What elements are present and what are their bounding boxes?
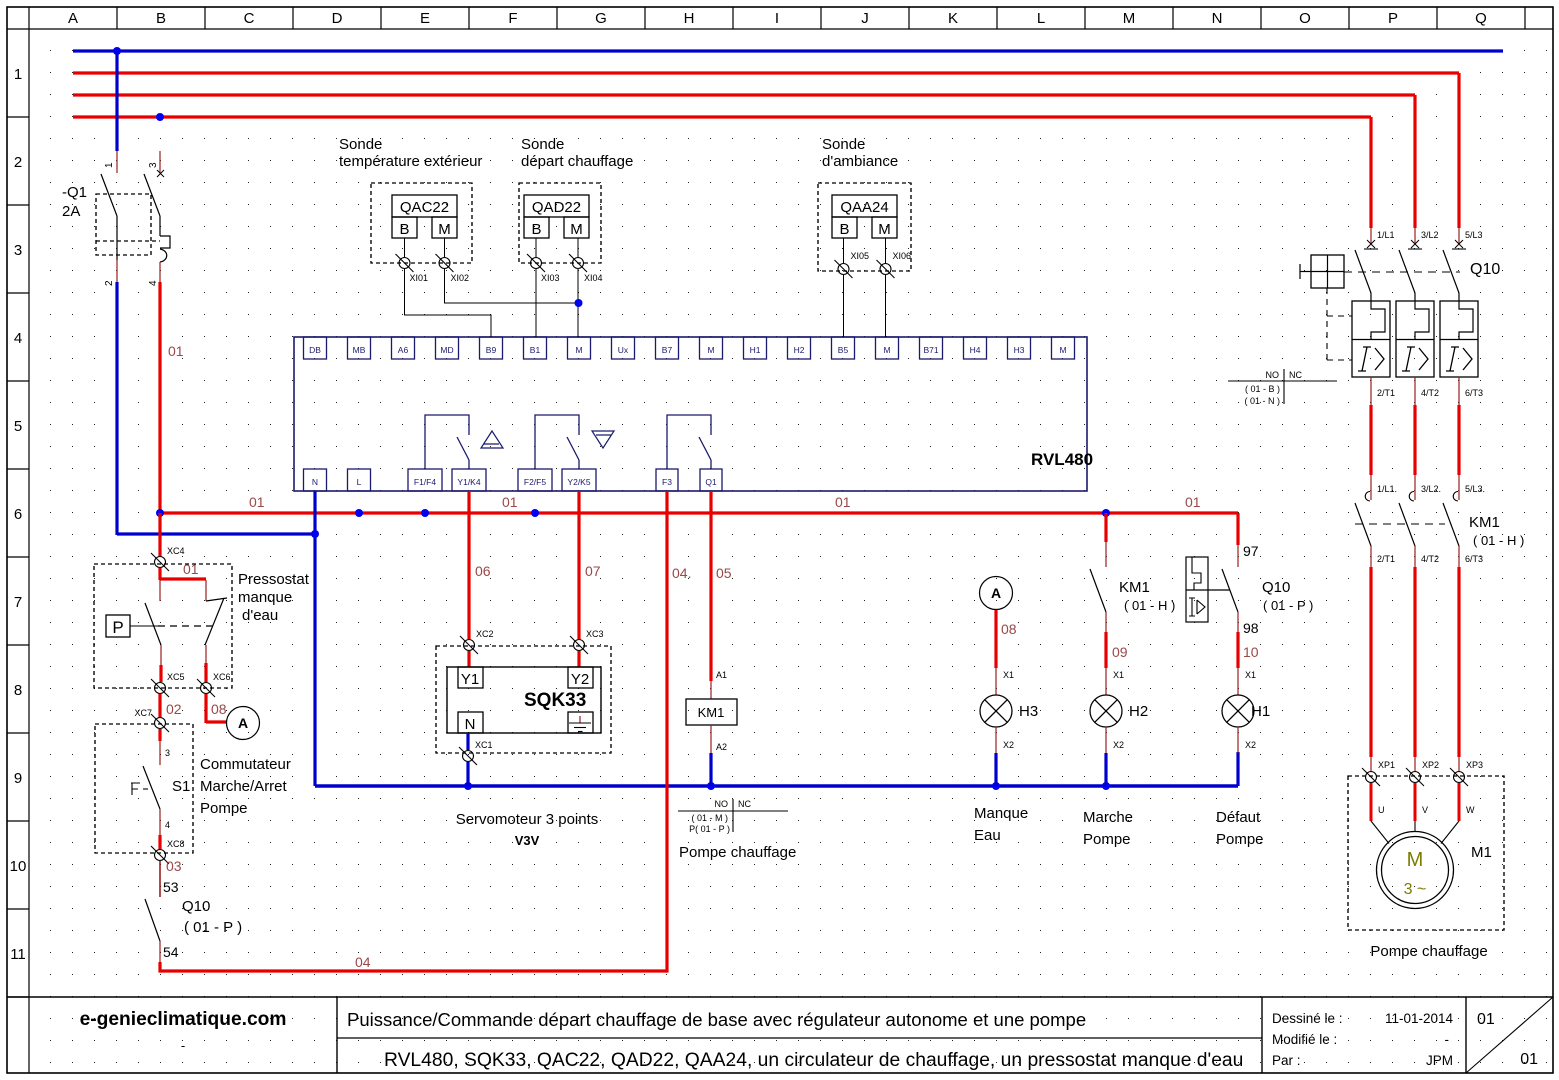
svg-text:Pompe: Pompe [1216, 831, 1264, 848]
wire H1 to blue bus [1238, 727, 1256, 753]
wire XI03 to B1 [535, 269, 537, 337]
svg-text:RVL480, SQK33, QAC22, QAD22, Q: RVL480, SQK33, QAC22, QAD22, QAA24, un c… [384, 1050, 1243, 1071]
svg-text:3 ~: 3 ~ [1404, 881, 1427, 898]
servomotor M2 SQK33 [436, 646, 611, 848]
svg-text:NC: NC [738, 799, 751, 809]
wire L3 bus [73, 117, 1371, 228]
svg-text:QAC22: QAC22 [400, 199, 449, 216]
contactor KM1 power contacts [1355, 475, 1524, 567]
svg-text:U: U [1378, 805, 1385, 815]
connector XC7 [155, 718, 166, 729]
wire N bus (blue phase/neutral top) [73, 49, 1503, 52]
svg-text:4: 4 [148, 280, 159, 286]
svg-text:Sonde: Sonde [521, 136, 564, 153]
svg-text:Y2/K5: Y2/K5 [567, 477, 590, 487]
svg-text:Marche/Arret: Marche/Arret [200, 778, 288, 795]
svg-text:H2: H2 [1129, 703, 1148, 720]
svg-text:H2: H2 [794, 345, 805, 355]
svg-text:97: 97 [1243, 543, 1259, 559]
svg-text:Puissance/Commande départ chau: Puissance/Commande départ chauffage de b… [347, 1009, 1086, 1030]
wire 08 XC6 to ammeter link [206, 694, 227, 723]
svg-text:B5: B5 [838, 345, 849, 355]
svg-text:J: J [861, 10, 869, 27]
svg-text:( 01 - N ): ( 01 - N ) [1244, 396, 1280, 406]
column letters [68, 10, 1487, 27]
svg-text:XC1: XC1 [475, 740, 493, 750]
svg-text:Y1: Y1 [461, 671, 479, 688]
svg-text:01: 01 [502, 494, 518, 510]
lamp H1 defaut pompe [1222, 695, 1270, 727]
node blue bus / Q1 tap [113, 47, 121, 55]
node blue bus at XC1 [464, 782, 472, 790]
svg-text:Par :: Par : [1272, 1053, 1301, 1068]
svg-text:manque: manque [238, 589, 292, 606]
wire 09 to H2 [1106, 632, 1128, 695]
svg-text:Q10: Q10 [182, 898, 210, 915]
svg-text:-: - [1445, 1032, 1450, 1047]
svg-text:XI04: XI04 [584, 273, 603, 283]
svg-text:B: B [531, 221, 541, 238]
svg-text:2A: 2A [62, 203, 80, 220]
svg-text:X1: X1 [1245, 670, 1256, 680]
node XI02/XI04 M junction [575, 299, 583, 307]
svg-text:H: H [684, 10, 695, 27]
svg-text:03: 03 [166, 858, 182, 874]
row numbers [10, 66, 27, 963]
off-page link A (left) [227, 707, 260, 740]
svg-text:KM1: KM1 [1119, 579, 1150, 596]
svg-text:5/L3.: 5/L3. [1465, 484, 1485, 494]
wire L2 bus [73, 95, 1415, 228]
svg-text:DB: DB [309, 345, 321, 355]
wire XI01 to B9 [405, 269, 492, 337]
connector XP3 [1454, 772, 1465, 783]
svg-text:-: - [181, 1038, 185, 1053]
svg-text:Pompe: Pompe [200, 800, 248, 817]
svg-text:01: 01 [168, 343, 184, 359]
motor M1 pompe chauffage [1348, 776, 1504, 960]
svg-text:X1: X1 [1113, 670, 1124, 680]
wire 08 to H3 [996, 610, 1017, 695]
wire 07 Y2/K5 to XC3 [579, 491, 601, 639]
svg-text:C: C [244, 10, 255, 27]
svg-text:B: B [156, 10, 166, 27]
svg-text:Défaut: Défaut [1216, 809, 1261, 826]
svg-text:N: N [1212, 10, 1223, 27]
svg-text:D: D [332, 10, 343, 27]
svg-text:P: P [112, 618, 123, 637]
node 01 bus at F2/F5 pin [531, 509, 539, 517]
svg-text:XC4: XC4 [167, 546, 185, 556]
svg-text:B71: B71 [923, 345, 938, 355]
svg-text:M: M [883, 345, 890, 355]
svg-text:JPM: JPM [1426, 1053, 1453, 1068]
svg-text:11: 11 [10, 946, 26, 963]
wire N SQK33 to XC1 [466, 733, 469, 750]
svg-text:M: M [707, 345, 714, 355]
svg-text:3: 3 [14, 242, 22, 259]
svg-text:QAA24: QAA24 [840, 199, 888, 216]
wire 01 jog into pressostat [160, 561, 206, 580]
svg-text:M: M [1407, 849, 1424, 871]
svg-text:Servomoteur 3 points: Servomoteur 3 points [456, 811, 599, 828]
sensor QAA24 room unit [818, 136, 911, 278]
svg-text:1: 1 [14, 66, 22, 83]
svg-text:V: V [1422, 805, 1428, 815]
svg-text:3/L2.: 3/L2. [1421, 484, 1441, 494]
svg-text:P( 01 - P ): P( 01 - P ) [689, 824, 730, 834]
svg-text:9: 9 [14, 770, 22, 787]
connector XC5 [155, 683, 166, 694]
svg-text:Pressostat: Pressostat [238, 571, 310, 588]
svg-text:XI03: XI03 [541, 273, 560, 283]
svg-text:H4: H4 [970, 345, 981, 355]
svg-text:6: 6 [14, 506, 22, 523]
wire blue drop to Q1 pole 1 [115, 51, 118, 151]
svg-text:F1/F4: F1/F4 [414, 477, 436, 487]
node 01 bus at KM1 contact [1102, 509, 1110, 517]
svg-text:11-01-2014: 11-01-2014 [1385, 1011, 1454, 1026]
svg-text:XC8: XC8 [167, 839, 185, 849]
svg-text:09: 09 [1112, 644, 1128, 660]
auxiliary contact Q10 53/54 [145, 898, 242, 963]
node blue bus at KM1 A2 [707, 782, 715, 790]
wire XI05 to B5 [843, 275, 845, 337]
svg-text:02: 02 [166, 701, 182, 717]
svg-text:( 01 - P ): ( 01 - P ) [1263, 598, 1313, 613]
svg-text:KM1: KM1 [698, 705, 725, 720]
svg-text:2/T1: 2/T1 [1377, 388, 1395, 398]
node 01 bus at F1/F4 pin [421, 509, 429, 517]
svg-text:température extérieur: température extérieur [339, 153, 482, 170]
off-page link A (right) [980, 577, 1013, 610]
svg-text:4: 4 [165, 820, 170, 830]
svg-text:NC: NC [1289, 370, 1302, 380]
svg-text:L: L [357, 477, 362, 487]
label defaut pompe [1216, 809, 1264, 848]
svg-text:E: E [420, 10, 430, 27]
internal relay contact pump Q1 [667, 415, 711, 469]
connector XP1 [1366, 772, 1377, 783]
svg-text:B1: B1 [530, 345, 541, 355]
svg-text:NO: NO [715, 799, 729, 809]
svg-text:QAD22: QAD22 [532, 199, 581, 216]
wire 06 Y1/K4 to XC2 [469, 491, 491, 639]
wire blue N vertical to lamp bus [313, 491, 316, 786]
wire 01 control bus [160, 494, 1238, 545]
svg-text:F: F [508, 10, 517, 27]
svg-text:5/L3: 5/L3 [1465, 230, 1483, 240]
svg-text:M: M [575, 345, 582, 355]
svg-text:10: 10 [1243, 644, 1259, 660]
wire Q10 to KM1 contacts [1371, 405, 1459, 475]
svg-text:3/L2: 3/L2 [1421, 230, 1439, 240]
svg-text:K: K [948, 10, 958, 27]
svg-text:01: 01 [249, 494, 265, 510]
svg-text:XC7: XC7 [134, 708, 152, 718]
svg-text:F3: F3 [662, 477, 672, 487]
svg-text:Q10: Q10 [1470, 261, 1500, 278]
internal relay contact K4 (heating open) [425, 415, 503, 469]
svg-text:Sonde: Sonde [339, 136, 382, 153]
svg-text:A1: A1 [716, 670, 727, 680]
svg-text:RVL480: RVL480 [1031, 450, 1093, 469]
svg-text:H3: H3 [1014, 345, 1025, 355]
svg-text:B: B [399, 221, 409, 238]
wire 04 to F3 [160, 491, 691, 973]
svg-text:départ chauffage: départ chauffage [521, 153, 633, 170]
svg-text:04: 04 [355, 954, 371, 970]
svg-text:01: 01 [835, 494, 851, 510]
svg-text:d'ambiance: d'ambiance [822, 153, 898, 170]
lamp H3 manque eau [980, 695, 1038, 727]
node L3 bus / Q1 tap [156, 113, 164, 121]
svg-text:H3: H3 [1019, 703, 1038, 720]
svg-text:1/L1: 1/L1 [1377, 230, 1395, 240]
svg-text:H1: H1 [1251, 703, 1270, 720]
svg-text:d'eau: d'eau [242, 607, 278, 624]
svg-text:F2/F5: F2/F5 [524, 477, 546, 487]
svg-text:KM1: KM1 [1469, 514, 1500, 531]
svg-text:( 01 - H ): ( 01 - H ) [1124, 598, 1175, 613]
connector XC4 [155, 557, 166, 568]
svg-text:M: M [1123, 10, 1136, 27]
motor breaker Q10 [1300, 228, 1500, 405]
node blue bus at H2 [1102, 782, 1110, 790]
svg-text:B: B [839, 221, 849, 238]
connector XP2 [1410, 772, 1421, 783]
svg-text:X2: X2 [1113, 740, 1124, 750]
contact cross-reference table Q10 [1228, 369, 1337, 406]
svg-text:XC6: XC6 [213, 672, 231, 682]
svg-text:05: 05 [716, 565, 732, 581]
svg-text:Pompe chauffage: Pompe chauffage [1370, 943, 1487, 960]
svg-text:XC3: XC3 [586, 629, 604, 639]
connector XC1 [463, 751, 474, 762]
svg-text:G: G [595, 10, 607, 27]
connector XC6 [201, 683, 212, 694]
wire 03 [160, 858, 182, 897]
svg-text:P: P [1388, 10, 1398, 27]
svg-text:01: 01 [1185, 494, 1201, 510]
contactor coil KM1 [686, 699, 737, 754]
wire 02 XC5 to XC7 [160, 694, 182, 718]
wire L1 bus [73, 73, 1459, 228]
svg-text:O: O [1299, 10, 1311, 27]
svg-text:Ux: Ux [618, 345, 629, 355]
wire blue Q1 to N node [117, 282, 315, 535]
svg-text:( 01 - H ): ( 01 - H ) [1473, 533, 1524, 548]
svg-text:X2: X2 [1003, 740, 1014, 750]
svg-text:98: 98 [1243, 620, 1259, 636]
svg-text:W: W [1466, 805, 1475, 815]
svg-text:I: I [775, 10, 779, 27]
svg-text:( 01 - B ): ( 01 - B ) [1245, 384, 1280, 394]
node N junction at RVL480 N pin [311, 530, 319, 538]
svg-text:A: A [68, 10, 78, 27]
selector switch S1 marche/arret [95, 724, 291, 853]
svg-text:3: 3 [165, 748, 170, 758]
svg-text:XC5: XC5 [167, 672, 185, 682]
svg-text:04.: 04. [672, 565, 691, 581]
svg-text:Q10: Q10 [1262, 579, 1290, 596]
svg-text:( 01 - P ): ( 01 - P ) [184, 919, 242, 936]
svg-text:4/T2: 4/T2 [1421, 554, 1439, 564]
svg-text:SQK33: SQK33 [524, 690, 586, 711]
controller U1 RVL480 [294, 337, 1093, 491]
svg-text:e-genieclimatique.com: e-genieclimatique.com [80, 1009, 287, 1030]
pressure switch S2 manque d'eau [94, 564, 310, 688]
wire H3 to blue bus [996, 727, 1014, 786]
svg-text:Q: Q [1475, 10, 1487, 27]
svg-text:XP3: XP3 [1466, 760, 1483, 770]
svg-text:Sonde: Sonde [822, 136, 865, 153]
svg-text:10: 10 [10, 858, 27, 875]
svg-text:XI05: XI05 [851, 251, 870, 261]
svg-text:Marche: Marche [1083, 809, 1133, 826]
svg-text:NO: NO [1266, 370, 1280, 380]
svg-text:A: A [238, 715, 248, 731]
wire 01 drop to XC4 [158, 513, 161, 557]
svg-text:( 01 - M ): ( 01 - M ) [691, 813, 728, 823]
svg-text:08: 08 [211, 701, 227, 717]
sensor QAC22 outside temperature [339, 136, 482, 283]
svg-text:M: M [438, 221, 451, 238]
connector XC3 [574, 640, 585, 651]
svg-text:X2: X2 [1245, 740, 1256, 750]
svg-text:1: 1 [104, 162, 115, 168]
svg-text:XC2: XC2 [476, 629, 494, 639]
svg-text:3: 3 [148, 162, 159, 168]
svg-text:1/L1.: 1/L1. [1377, 484, 1397, 494]
svg-text:07: 07 [585, 563, 601, 579]
node 01 bus at L pin [355, 509, 363, 517]
svg-text:M: M [878, 221, 891, 238]
svg-text:N: N [312, 477, 318, 487]
svg-text:08: 08 [1001, 621, 1017, 637]
svg-text:Y2: Y2 [571, 671, 589, 688]
svg-text:Q1: Q1 [705, 477, 717, 487]
svg-text:S1: S1 [172, 778, 190, 795]
wire KM1 A2 to blue bus [709, 753, 712, 786]
svg-text:01: 01 [1477, 1011, 1495, 1028]
svg-text:Pompe chauffage: Pompe chauffage [679, 844, 796, 861]
circuit breaker Q1 [62, 151, 170, 286]
svg-text:M: M [1059, 345, 1066, 355]
svg-text:M1: M1 [1471, 844, 1492, 861]
wire 10 to H1 [1238, 632, 1259, 695]
wire 05 Q1 pin to KM1 coil [711, 491, 732, 699]
svg-text:Manque: Manque [974, 805, 1028, 822]
svg-text:4/T2: 4/T2 [1421, 388, 1439, 398]
title block [7, 997, 1553, 1073]
sensor QAD22 flow temperature [519, 136, 633, 283]
svg-text:4: 4 [14, 330, 22, 347]
auxiliary contact KM1 (01-H) [1090, 513, 1175, 632]
node 01 bus at Q1 column [156, 509, 164, 517]
svg-text:Y1/K4: Y1/K4 [457, 477, 480, 487]
svg-text:B7: B7 [662, 345, 673, 355]
svg-text:Modifié le :: Modifié le : [1272, 1032, 1337, 1047]
svg-text:A2: A2 [716, 742, 727, 752]
svg-text:A: A [991, 585, 1001, 601]
wire blue lamp return bus [315, 752, 1238, 786]
connector XC8 [155, 850, 166, 861]
svg-text:2/T1: 2/T1 [1377, 554, 1395, 564]
svg-text:N: N [465, 716, 476, 733]
wire red Q1 down to bus 01 [160, 282, 184, 513]
svg-text:L: L [1037, 10, 1045, 27]
auxiliary contact Q10 97/98 with thermal release [1186, 543, 1313, 636]
svg-text:54: 54 [163, 944, 179, 960]
connector XC2 [464, 640, 475, 651]
svg-text:XP2: XP2 [1422, 760, 1439, 770]
label marche pompe [1083, 809, 1133, 848]
svg-text:MB: MB [353, 345, 366, 355]
svg-text:A6: A6 [398, 345, 409, 355]
svg-text:Commutateur: Commutateur [200, 756, 291, 773]
wire KM1 to XP connectors [1371, 567, 1459, 771]
svg-text:XI06: XI06 [893, 251, 912, 261]
svg-text:H1: H1 [750, 345, 761, 355]
svg-text:X1: X1 [1003, 670, 1014, 680]
wire XI02 to M [445, 269, 580, 303]
svg-text:XP1: XP1 [1378, 760, 1395, 770]
wire XC1 to blue bus [466, 762, 469, 786]
svg-text:06: 06 [475, 563, 491, 579]
svg-text:53: 53 [163, 879, 179, 895]
svg-text:Pompe: Pompe [1083, 831, 1131, 848]
svg-text:8: 8 [14, 682, 22, 699]
svg-text:B9: B9 [486, 345, 497, 355]
svg-text:XI02: XI02 [451, 273, 470, 283]
svg-text:2: 2 [104, 280, 115, 286]
label manque eau [974, 805, 1028, 844]
svg-text:2: 2 [14, 154, 22, 171]
svg-text:M: M [570, 221, 583, 238]
svg-text:-Q1: -Q1 [62, 184, 87, 201]
svg-text:6/T3: 6/T3 [1465, 554, 1483, 564]
svg-text:6/T3: 6/T3 [1465, 388, 1483, 398]
svg-text:MD: MD [440, 345, 453, 355]
wire H2 to blue bus [1106, 727, 1124, 786]
wire XI06 to M [885, 275, 887, 337]
svg-text:01: 01 [1520, 1051, 1538, 1068]
svg-text:XI01: XI01 [410, 273, 429, 283]
svg-text:V3V: V3V [515, 833, 540, 848]
lamp H2 marche pompe [1090, 695, 1148, 727]
wire XI04 to M [577, 269, 579, 337]
svg-text:5: 5 [14, 418, 22, 435]
svg-text:Dessiné le :: Dessiné le : [1272, 1011, 1343, 1026]
svg-text:7: 7 [14, 594, 22, 611]
contact cross-reference table KM1 [678, 799, 788, 834]
internal relay contact K5 (closing) [535, 415, 614, 469]
svg-text:Eau: Eau [974, 827, 1001, 844]
node blue bus at H3 [992, 782, 1000, 790]
